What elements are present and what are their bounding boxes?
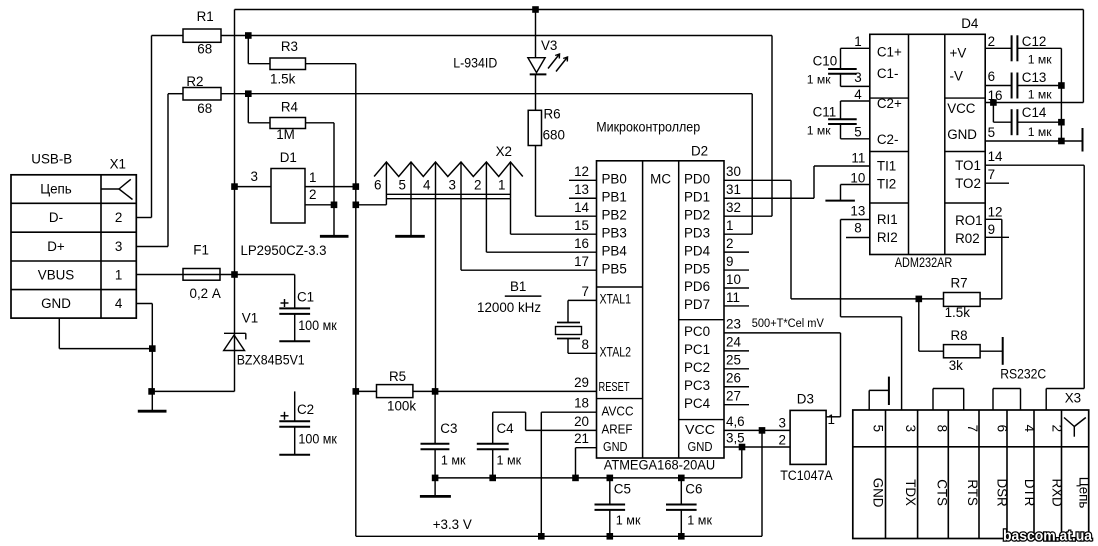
svg-text:F1: F1: [193, 243, 209, 258]
svg-text:7: 7: [965, 425, 980, 432]
svg-text:2: 2: [309, 187, 316, 202]
svg-text:XTAL2: XTAL2: [600, 345, 632, 360]
svg-text:CTS: CTS: [935, 479, 950, 506]
svg-text:2: 2: [115, 210, 122, 225]
svg-text:3: 3: [115, 239, 122, 254]
svg-text:1: 1: [854, 34, 861, 49]
svg-text:1: 1: [115, 268, 122, 283]
svg-text:6: 6: [988, 69, 995, 84]
svg-text:D4: D4: [961, 16, 979, 31]
svg-text:LP2950CZ-3.3: LP2950CZ-3.3: [241, 243, 327, 258]
svg-text:V3: V3: [541, 38, 557, 53]
svg-text:C1: C1: [297, 290, 314, 305]
svg-text:Цепь: Цепь: [1077, 477, 1092, 509]
svg-text:17: 17: [574, 254, 589, 269]
svg-text:2: 2: [988, 34, 995, 49]
svg-text:PC2: PC2: [684, 360, 710, 375]
svg-text:29: 29: [574, 375, 589, 390]
svg-text:3: 3: [854, 70, 861, 85]
svg-text:13: 13: [850, 203, 865, 218]
svg-text:PD6: PD6: [684, 279, 710, 294]
svg-text:8: 8: [854, 221, 861, 236]
svg-text:MC: MC: [650, 172, 671, 187]
svg-text:4: 4: [115, 296, 123, 311]
svg-text:L-934ID: L-934ID: [453, 56, 497, 71]
svg-text:R1: R1: [197, 9, 214, 24]
svg-text:bascom.at.ua: bascom.at.ua: [1003, 528, 1093, 545]
svg-text:1 мк: 1 мк: [1028, 125, 1053, 139]
svg-text:0,2 А: 0,2 А: [190, 286, 221, 301]
svg-text:AREF: AREF: [602, 423, 633, 437]
svg-text:1 мк: 1 мк: [1028, 53, 1053, 67]
svg-text:11: 11: [851, 151, 865, 166]
svg-text:100k: 100k: [387, 399, 416, 414]
svg-text:23: 23: [726, 317, 741, 332]
svg-text:1 мк: 1 мк: [616, 514, 641, 528]
svg-text:D+: D+: [47, 239, 65, 254]
svg-text:8: 8: [582, 337, 589, 352]
svg-text:6: 6: [374, 178, 381, 193]
svg-text:5: 5: [399, 178, 406, 193]
svg-text:100 мк: 100 мк: [298, 432, 337, 447]
svg-text:X2: X2: [496, 144, 512, 159]
svg-text:RI1: RI1: [877, 212, 898, 227]
svg-text:R02: R02: [955, 231, 980, 246]
svg-text:4: 4: [854, 87, 862, 102]
svg-text:4: 4: [1022, 425, 1037, 433]
svg-text:30: 30: [726, 164, 741, 179]
svg-text:10: 10: [850, 170, 865, 185]
svg-text:Микроконтроллер: Микроконтроллер: [596, 120, 700, 135]
svg-text:GND: GND: [41, 296, 71, 311]
svg-text:RESET: RESET: [599, 380, 630, 394]
svg-text:PB0: PB0: [602, 172, 627, 187]
svg-text:16: 16: [574, 236, 589, 251]
svg-text:11: 11: [726, 290, 740, 305]
svg-text:PD7: PD7: [684, 297, 710, 312]
svg-text:32: 32: [726, 200, 741, 215]
svg-text:C3: C3: [440, 421, 457, 436]
svg-text:R5: R5: [389, 369, 406, 384]
svg-text:9: 9: [988, 222, 995, 237]
svg-text:R7: R7: [951, 276, 968, 291]
svg-text:14: 14: [574, 200, 589, 215]
svg-text:680: 680: [543, 128, 565, 143]
svg-text:D3: D3: [797, 392, 814, 407]
svg-text:ATMEGA168-20AU: ATMEGA168-20AU: [604, 458, 716, 473]
svg-text:1: 1: [828, 412, 835, 427]
svg-text:D1: D1: [280, 150, 297, 165]
svg-text:Цепь: Цепь: [40, 182, 72, 197]
svg-text:PB3: PB3: [602, 225, 627, 240]
svg-text:RI2: RI2: [877, 230, 898, 245]
svg-text:25: 25: [726, 353, 741, 368]
svg-text:1 мк: 1 мк: [807, 124, 832, 138]
svg-text:2: 2: [1049, 425, 1064, 432]
svg-text:8: 8: [935, 425, 950, 432]
svg-text:PD1: PD1: [684, 189, 710, 204]
svg-text:6: 6: [995, 425, 1010, 432]
svg-text:13: 13: [574, 182, 589, 197]
svg-text:TDX: TDX: [903, 479, 918, 506]
svg-text:TO1: TO1: [955, 158, 981, 173]
svg-text:10: 10: [726, 272, 741, 287]
svg-text:4: 4: [423, 178, 431, 193]
svg-text:XTAL1: XTAL1: [600, 292, 632, 307]
svg-text:1.5k: 1.5k: [945, 305, 971, 320]
svg-text:1 мк: 1 мк: [1028, 88, 1053, 102]
svg-text:3: 3: [449, 178, 456, 193]
svg-text:68: 68: [197, 101, 212, 116]
svg-text:R4: R4: [281, 99, 299, 114]
svg-text:C2: C2: [297, 402, 314, 417]
svg-text:B1: B1: [510, 279, 526, 294]
svg-text:GND: GND: [947, 127, 977, 142]
svg-text:VCC: VCC: [685, 423, 715, 437]
svg-text:18: 18: [574, 396, 589, 411]
svg-text:5: 5: [988, 125, 995, 140]
svg-text:14: 14: [988, 149, 1003, 164]
svg-text:RTS: RTS: [965, 479, 980, 506]
svg-text:PD4: PD4: [684, 243, 711, 258]
svg-text:31: 31: [726, 182, 741, 197]
svg-text:PC4: PC4: [684, 396, 711, 411]
svg-text:GND: GND: [871, 478, 886, 508]
svg-text:5: 5: [854, 124, 861, 139]
svg-text:9: 9: [726, 254, 733, 269]
svg-text:1: 1: [726, 218, 733, 233]
svg-text:GND: GND: [688, 440, 713, 454]
svg-text:C1+: C1+: [877, 44, 902, 59]
svg-text:1 мк: 1 мк: [441, 454, 466, 468]
svg-text:BZX84B5V1: BZX84B5V1: [237, 353, 305, 368]
svg-text:R2: R2: [186, 74, 203, 89]
svg-text:2: 2: [474, 178, 481, 193]
svg-text:C2+: C2+: [877, 96, 902, 111]
svg-text:1: 1: [309, 170, 316, 185]
svg-text:X3: X3: [1065, 391, 1081, 406]
svg-text:68: 68: [197, 41, 212, 56]
svg-text:DTR: DTR: [1022, 479, 1037, 507]
svg-text:3k: 3k: [949, 358, 963, 373]
svg-text:+V: +V: [950, 46, 967, 61]
svg-text:TI1: TI1: [877, 159, 896, 174]
svg-text:PB1: PB1: [602, 189, 627, 204]
svg-text:C11: C11: [813, 105, 837, 120]
svg-text:1: 1: [498, 178, 505, 193]
svg-text:PB4: PB4: [602, 243, 628, 258]
svg-text:24: 24: [726, 335, 741, 350]
svg-text:C10: C10: [813, 54, 838, 69]
svg-text:PC1: PC1: [684, 342, 710, 357]
svg-text:3: 3: [251, 169, 258, 184]
svg-text:C4: C4: [497, 421, 515, 436]
svg-text:DSR: DSR: [995, 478, 1010, 507]
svg-text:100 мк: 100 мк: [298, 318, 337, 333]
svg-text:RS232C: RS232C: [1000, 367, 1046, 382]
svg-text:21: 21: [574, 431, 589, 446]
svg-text:26: 26: [726, 371, 741, 386]
svg-text:C6: C6: [685, 482, 702, 497]
svg-text:PC0: PC0: [684, 324, 710, 339]
svg-text:7: 7: [988, 167, 995, 182]
svg-text:V1: V1: [242, 310, 258, 325]
svg-text:3: 3: [779, 415, 786, 430]
svg-text:1 мк: 1 мк: [807, 72, 832, 86]
svg-text:2: 2: [726, 236, 733, 251]
svg-text:RO1: RO1: [955, 213, 983, 228]
svg-text:+3.3 V: +3.3 V: [433, 517, 472, 532]
svg-text:12: 12: [988, 205, 1003, 220]
svg-text:PC3: PC3: [684, 378, 710, 393]
svg-text:R8: R8: [951, 328, 968, 343]
svg-text:RXD: RXD: [1049, 478, 1064, 507]
svg-text:TI2: TI2: [877, 177, 896, 192]
svg-text:1.5k: 1.5k: [270, 72, 296, 87]
svg-text:7: 7: [582, 284, 589, 299]
svg-text:PD0: PD0: [684, 172, 710, 187]
svg-text:20: 20: [574, 414, 589, 429]
svg-text:VCC: VCC: [947, 101, 976, 116]
svg-text:C1-: C1-: [877, 66, 899, 81]
svg-text:C5: C5: [614, 482, 631, 497]
svg-text:R3: R3: [281, 39, 298, 54]
svg-text:C12: C12: [1022, 34, 1047, 49]
svg-text:4,6: 4,6: [726, 414, 745, 429]
svg-text:ADM232AR: ADM232AR: [895, 255, 953, 270]
svg-text:GND: GND: [603, 440, 628, 454]
svg-text:R6: R6: [544, 107, 561, 122]
svg-text:VBUS: VBUS: [38, 268, 75, 283]
svg-text:3: 3: [903, 425, 918, 432]
svg-text:AVCC: AVCC: [602, 404, 634, 418]
svg-text:3,5: 3,5: [726, 431, 745, 446]
svg-text:PD3: PD3: [684, 225, 710, 240]
svg-text:TC1047A: TC1047A: [780, 468, 833, 483]
svg-text:C2-: C2-: [877, 132, 899, 147]
svg-text:X1: X1: [110, 157, 126, 172]
svg-text:2: 2: [779, 432, 786, 447]
svg-text:PB5: PB5: [602, 261, 627, 276]
svg-text:1 мк: 1 мк: [687, 514, 712, 528]
svg-text:PD2: PD2: [684, 207, 710, 222]
svg-text:1 мк: 1 мк: [497, 454, 522, 468]
svg-text:D-: D-: [49, 210, 63, 225]
svg-text:TO2: TO2: [955, 176, 981, 191]
svg-text:1M: 1M: [276, 127, 295, 142]
svg-text:PD5: PD5: [684, 261, 710, 276]
svg-text:12000 kHz: 12000 kHz: [477, 300, 541, 315]
svg-text:5: 5: [871, 425, 886, 432]
svg-text:C13: C13: [1022, 70, 1047, 85]
svg-text:D2: D2: [691, 144, 708, 159]
svg-text:500+T*Cel mV: 500+T*Cel mV: [752, 316, 825, 330]
svg-text:USB-B: USB-B: [31, 152, 72, 167]
svg-text:12: 12: [574, 164, 589, 179]
svg-text:15: 15: [574, 218, 589, 233]
svg-text:27: 27: [726, 389, 741, 404]
svg-text:C14: C14: [1022, 105, 1047, 120]
svg-text:PB2: PB2: [602, 207, 627, 222]
svg-text:-V: -V: [950, 69, 963, 84]
